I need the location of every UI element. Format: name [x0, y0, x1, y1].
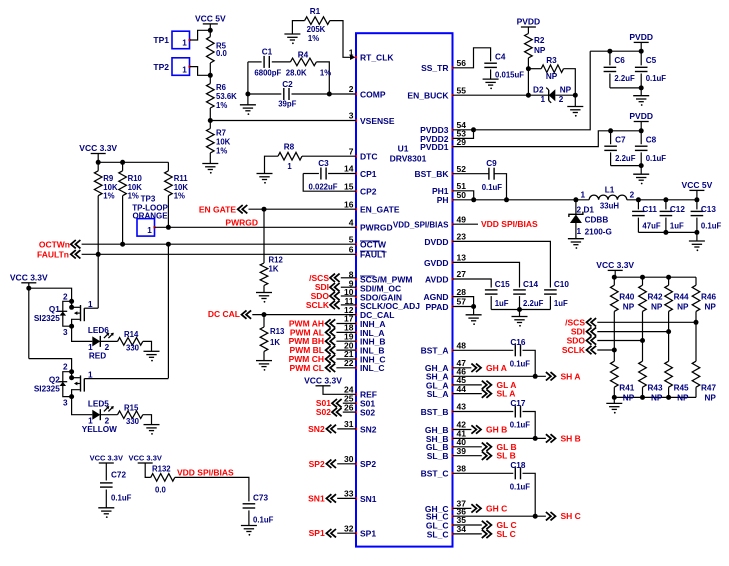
svg-text:C6: C6	[614, 56, 625, 65]
svg-text:INL_C: INL_C	[360, 363, 385, 373]
svg-text:1: 1	[182, 65, 187, 74]
svg-text:R9: R9	[103, 174, 114, 183]
svg-text:C5: C5	[646, 56, 657, 65]
svg-text:3: 3	[349, 111, 354, 121]
svg-text:GH B: GH B	[486, 425, 507, 435]
svg-text:R10: R10	[128, 174, 143, 183]
svg-text:2: 2	[630, 191, 635, 200]
svg-text:R43: R43	[648, 384, 663, 393]
svg-text:SH B: SH B	[561, 433, 581, 443]
svg-text:1: 1	[576, 227, 581, 236]
svg-text:6800pF: 6800pF	[254, 69, 281, 78]
svg-text:1%: 1%	[128, 192, 139, 201]
svg-text:SP1: SP1	[309, 528, 325, 538]
svg-text:BST_C: BST_C	[421, 469, 449, 479]
svg-text:PPAD: PPAD	[426, 302, 449, 312]
svg-text:VCC 3.3V: VCC 3.3V	[304, 375, 342, 385]
svg-text:C12: C12	[670, 205, 685, 214]
svg-text:GVDD: GVDD	[424, 258, 449, 268]
svg-text:R4: R4	[298, 51, 309, 60]
svg-text:43: 43	[457, 402, 467, 412]
svg-text:AVDD: AVDD	[425, 274, 448, 284]
svg-text:5: 5	[349, 234, 354, 244]
svg-text:C72: C72	[111, 471, 126, 480]
svg-text:Q1: Q1	[49, 305, 60, 314]
svg-text:C4: C4	[495, 53, 506, 62]
svg-text:NP: NP	[651, 394, 663, 403]
svg-text:15: 15	[344, 181, 354, 191]
svg-text:1: 1	[88, 300, 93, 309]
svg-text:R41: R41	[619, 384, 634, 393]
svg-text:1: 1	[581, 191, 586, 200]
svg-text:NP: NP	[677, 303, 689, 312]
svg-text:38: 38	[457, 464, 467, 474]
svg-text:LED6: LED6	[88, 326, 109, 335]
svg-text:R132: R132	[152, 465, 171, 474]
svg-text:SN1: SN1	[308, 493, 325, 503]
svg-text:2: 2	[559, 95, 564, 104]
svg-text:4: 4	[349, 218, 354, 228]
svg-text:GH C: GH C	[486, 503, 507, 513]
svg-text:EN GATE: EN GATE	[199, 204, 236, 214]
svg-text:39pF: 39pF	[278, 100, 296, 109]
svg-text:0.1uF: 0.1uF	[482, 183, 503, 192]
svg-text:R14: R14	[124, 330, 139, 339]
svg-text:C17: C17	[510, 399, 525, 408]
svg-text:VCC 3.3V: VCC 3.3V	[79, 143, 117, 153]
svg-text:48: 48	[457, 341, 467, 351]
svg-text:53.6K: 53.6K	[216, 92, 237, 101]
svg-text:PVDD: PVDD	[629, 32, 653, 42]
svg-text:R47: R47	[701, 384, 716, 393]
svg-text:2: 2	[63, 292, 68, 301]
svg-text:R7: R7	[216, 129, 226, 138]
svg-text:AGND: AGND	[423, 292, 448, 302]
svg-text:NP: NP	[534, 46, 546, 55]
svg-text:56: 56	[457, 58, 467, 68]
svg-text:VDD SPI/BIAS: VDD SPI/BIAS	[481, 219, 538, 229]
svg-text:PVDD1: PVDD1	[420, 142, 449, 152]
svg-text:16: 16	[344, 199, 354, 209]
svg-text:1%: 1%	[216, 147, 227, 156]
svg-text:27: 27	[457, 269, 467, 279]
svg-text:2100-G: 2100-G	[585, 228, 612, 237]
svg-text:1uF: 1uF	[554, 299, 568, 308]
svg-text:1: 1	[540, 95, 545, 104]
svg-text:2: 2	[576, 206, 581, 215]
svg-text:1%: 1%	[103, 192, 114, 201]
svg-text:0.1uF: 0.1uF	[510, 359, 531, 368]
svg-text:C3: C3	[318, 159, 329, 168]
svg-text:SCLK: SCLK	[306, 300, 330, 310]
svg-text:PWM CL: PWM CL	[290, 363, 324, 373]
svg-text:1%: 1%	[308, 34, 319, 43]
svg-text:VCC 3.3V: VCC 3.3V	[10, 272, 48, 282]
svg-text:SN2: SN2	[308, 424, 325, 434]
svg-text:2.2uF: 2.2uF	[615, 154, 636, 163]
svg-text:VCC 5V: VCC 5V	[682, 180, 713, 190]
svg-text:32: 32	[344, 523, 354, 533]
svg-text:1K: 1K	[270, 338, 280, 347]
svg-text:SI2325: SI2325	[34, 314, 60, 323]
svg-text:13: 13	[457, 253, 467, 263]
svg-text:R12: R12	[269, 256, 284, 265]
svg-text:2.2uF: 2.2uF	[523, 299, 544, 308]
svg-text:1: 1	[287, 162, 292, 171]
svg-text:TP2: TP2	[153, 62, 169, 72]
svg-text:23: 23	[457, 232, 467, 242]
svg-text:SL A: SL A	[497, 389, 516, 399]
svg-text:1%: 1%	[216, 101, 227, 110]
svg-text:0.015uF: 0.015uF	[495, 71, 524, 80]
svg-text:PWRGD: PWRGD	[360, 223, 393, 233]
svg-text:TP3: TP3	[141, 195, 156, 204]
svg-text:330: 330	[126, 344, 140, 353]
svg-text:C9: C9	[486, 159, 497, 168]
svg-text:RT_CLK: RT_CLK	[360, 53, 394, 63]
svg-text:47uF: 47uF	[642, 222, 660, 231]
svg-text:2.2uF: 2.2uF	[614, 74, 635, 83]
svg-text:1%: 1%	[320, 69, 331, 78]
svg-text:SH C: SH C	[561, 511, 581, 521]
svg-text:30: 30	[344, 454, 354, 464]
svg-text:COMP: COMP	[360, 89, 386, 99]
svg-text:0.022uF: 0.022uF	[309, 183, 338, 192]
svg-text:1: 1	[182, 39, 187, 48]
svg-text:EN_GATE: EN_GATE	[360, 205, 400, 215]
svg-text:DC CAL: DC CAL	[208, 309, 240, 319]
svg-text:NP: NP	[705, 394, 717, 403]
svg-text:0.0: 0.0	[216, 49, 228, 58]
svg-text:D2: D2	[533, 85, 544, 94]
svg-text:VDD_SPI/BIAS: VDD_SPI/BIAS	[393, 221, 449, 230]
svg-text:52: 52	[457, 164, 467, 174]
svg-text:NP: NP	[705, 303, 717, 312]
svg-text:C7: C7	[615, 136, 626, 145]
svg-text:SL_B: SL_B	[427, 451, 449, 461]
svg-text:SP2: SP2	[309, 459, 325, 469]
svg-text:C13: C13	[701, 205, 716, 214]
svg-text:SN2: SN2	[360, 424, 377, 434]
svg-text:PWRGD: PWRGD	[225, 217, 258, 227]
svg-text:R2: R2	[534, 36, 545, 45]
svg-text:EN_BUCK: EN_BUCK	[407, 91, 449, 101]
svg-text:0.1uF: 0.1uF	[111, 494, 132, 503]
svg-text:R3: R3	[546, 56, 557, 65]
svg-text:OCTWn: OCTWn	[39, 240, 70, 250]
svg-text:0.1uF: 0.1uF	[701, 222, 722, 231]
svg-text:1K: 1K	[269, 265, 279, 274]
svg-text:DTC: DTC	[360, 152, 377, 162]
svg-text:S02: S02	[316, 407, 331, 417]
svg-text:SL_C: SL_C	[427, 529, 449, 539]
svg-text:SL_A: SL_A	[427, 389, 449, 399]
svg-text:R8: R8	[284, 143, 295, 152]
svg-text:SI2325: SI2325	[34, 385, 60, 394]
svg-text:SP1: SP1	[360, 529, 376, 539]
svg-text:TP1: TP1	[153, 35, 169, 45]
svg-text:LED5: LED5	[88, 399, 109, 408]
svg-text:SH A: SH A	[561, 371, 581, 381]
svg-text:C18: C18	[510, 461, 525, 470]
svg-text:3: 3	[63, 328, 68, 337]
svg-text:PVDD: PVDD	[629, 111, 653, 121]
svg-text:33: 33	[344, 489, 354, 499]
svg-text:VDD SPI/BIAS: VDD SPI/BIAS	[177, 467, 234, 477]
svg-text:R45: R45	[674, 384, 689, 393]
svg-text:SS_TR: SS_TR	[421, 63, 448, 73]
svg-text:VCC 3.3V: VCC 3.3V	[596, 260, 634, 270]
svg-text:2: 2	[63, 363, 68, 372]
svg-text:U1: U1	[398, 144, 409, 154]
svg-text:VCC 3.3V: VCC 3.3V	[90, 454, 123, 463]
svg-text:0.1uF: 0.1uF	[510, 421, 531, 430]
svg-text:3: 3	[63, 399, 68, 408]
svg-text:FAULTn: FAULTn	[37, 250, 69, 260]
svg-text:R15: R15	[124, 403, 139, 412]
svg-text:GH A: GH A	[486, 363, 507, 373]
svg-text:VCC 3.3V: VCC 3.3V	[129, 454, 162, 463]
svg-text:BST_B: BST_B	[421, 407, 449, 417]
svg-text:BST_BK: BST_BK	[414, 169, 449, 179]
svg-text:R44: R44	[674, 293, 689, 302]
svg-text:DVDD: DVDD	[424, 237, 448, 247]
svg-text:C16: C16	[510, 338, 525, 347]
svg-text:NP: NP	[623, 303, 635, 312]
svg-text:VSENSE: VSENSE	[360, 116, 395, 126]
svg-text:RED: RED	[89, 352, 106, 361]
svg-text:55: 55	[457, 85, 467, 95]
svg-text:NP: NP	[546, 72, 558, 81]
svg-text:BST_A: BST_A	[421, 346, 449, 356]
svg-text:R13: R13	[270, 327, 285, 336]
svg-text:SDO: SDO	[567, 336, 586, 346]
svg-text:0.0: 0.0	[155, 486, 167, 495]
svg-text:PH: PH	[437, 195, 449, 205]
svg-text:YELLOW: YELLOW	[82, 425, 117, 434]
svg-text:0.1uF: 0.1uF	[253, 516, 274, 525]
svg-text:1uF: 1uF	[670, 222, 684, 231]
svg-text:1uF: 1uF	[495, 299, 509, 308]
svg-text:1%: 1%	[174, 192, 185, 201]
svg-text:D1: D1	[584, 206, 595, 215]
svg-text:0.1uF: 0.1uF	[646, 74, 667, 83]
svg-text:C8: C8	[646, 136, 657, 145]
svg-text:330: 330	[126, 417, 140, 426]
svg-text:C14: C14	[523, 280, 538, 289]
svg-text:NP: NP	[651, 303, 663, 312]
svg-text:14: 14	[344, 164, 354, 174]
svg-text:NP: NP	[623, 394, 635, 403]
svg-text:R6: R6	[216, 83, 227, 92]
svg-text:1: 1	[88, 370, 93, 379]
svg-text:R40: R40	[619, 293, 634, 302]
svg-text:205K: 205K	[307, 25, 326, 34]
svg-text:CDBB: CDBB	[585, 216, 609, 225]
svg-text:DRV8301: DRV8301	[390, 154, 427, 164]
svg-text:VCC 5V: VCC 5V	[195, 13, 226, 23]
svg-text:PVDD: PVDD	[517, 17, 541, 27]
svg-text:31: 31	[344, 419, 354, 429]
svg-text:50: 50	[457, 190, 467, 200]
svg-text:SP2: SP2	[360, 459, 376, 469]
svg-text:Q2: Q2	[49, 376, 60, 385]
svg-text:SL C: SL C	[497, 529, 516, 539]
svg-text:6: 6	[349, 245, 354, 255]
svg-text:C2: C2	[282, 80, 293, 89]
svg-text:SCLK: SCLK	[562, 345, 586, 355]
svg-text:1: 1	[147, 226, 152, 235]
svg-text:S02: S02	[360, 408, 375, 418]
svg-text:28: 28	[457, 287, 467, 297]
svg-text:NP: NP	[677, 394, 689, 403]
svg-text:57: 57	[457, 297, 467, 307]
svg-text:0.1uF: 0.1uF	[646, 154, 667, 163]
svg-text:CP2: CP2	[360, 187, 377, 197]
svg-text:CP1: CP1	[360, 169, 377, 179]
svg-text:NP: NP	[560, 86, 572, 95]
svg-text:R1: R1	[310, 7, 321, 16]
svg-text:C11: C11	[642, 205, 657, 214]
svg-text:7: 7	[349, 146, 354, 156]
svg-text:10K: 10K	[216, 138, 231, 147]
svg-text:SL B: SL B	[497, 451, 516, 461]
svg-text:R46: R46	[701, 293, 716, 302]
svg-text:C73: C73	[253, 494, 268, 503]
svg-text:0.1uF: 0.1uF	[510, 482, 531, 491]
svg-text:C10: C10	[554, 280, 569, 289]
svg-text:R42: R42	[648, 293, 663, 302]
svg-text:C1: C1	[262, 48, 273, 57]
svg-text:28.0K: 28.0K	[286, 69, 307, 78]
svg-text:SN1: SN1	[360, 494, 377, 504]
svg-text:2: 2	[349, 84, 354, 94]
svg-text:49: 49	[457, 214, 467, 224]
svg-text:33uH: 33uH	[600, 202, 619, 211]
svg-text:R11: R11	[174, 174, 189, 183]
svg-text:L1: L1	[605, 186, 615, 195]
svg-text:C15: C15	[495, 280, 510, 289]
